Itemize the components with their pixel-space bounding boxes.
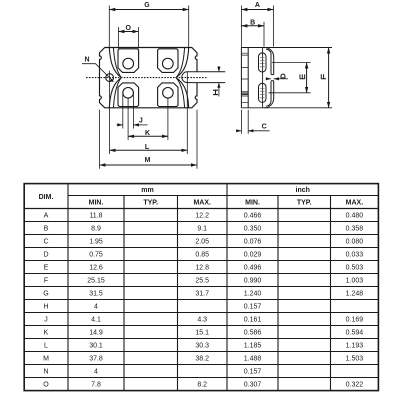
top view package body outline: [100, 48, 198, 108]
svg-text:0.85: 0.85: [195, 252, 209, 259]
label E (rotated): [300, 74, 305, 78]
svg-text:1.240: 1.240: [244, 291, 262, 298]
svg-text:M: M: [145, 157, 151, 164]
svg-text:0.350: 0.350: [244, 226, 262, 233]
svg-text:7.8: 7.8: [91, 382, 101, 389]
svg-text:inch: inch: [296, 187, 310, 194]
terminal hole lower-right: [163, 88, 174, 99]
svg-text:1.248: 1.248: [346, 291, 364, 298]
dimension B: [241, 25, 264, 27]
svg-text:37.8: 37.8: [89, 356, 103, 363]
svg-text:1.185: 1.185: [244, 343, 262, 350]
svg-text:0.033: 0.033: [346, 252, 364, 259]
label F (rotated): [321, 74, 326, 78]
terminal pad upper-right: [158, 49, 178, 73]
lower terminal bent tab outer: [264, 81, 273, 108]
right mounting slot: [182, 72, 225, 83]
table outer border: [24, 184, 378, 391]
svg-text:TYP.: TYP.: [297, 200, 312, 207]
svg-text:1.488: 1.488: [244, 356, 262, 363]
svg-text:0.594: 0.594: [346, 330, 364, 337]
svg-text:0.157: 0.157: [244, 304, 262, 311]
upper terminal hole capsule: [259, 53, 267, 72]
side view bottom edge / F extension: [241, 107, 332, 109]
svg-text:1.003: 1.003: [346, 278, 364, 285]
svg-text:O: O: [125, 25, 131, 32]
table header row lines: [68, 195, 378, 197]
svg-text:4.1: 4.1: [91, 317, 101, 324]
svg-text:MAX.: MAX.: [346, 200, 364, 207]
terminal hole lower-left: [123, 88, 134, 99]
svg-text:G: G: [43, 291, 48, 298]
J extension lines (hole tangents): [122, 93, 124, 129]
side view body right edge: [262, 48, 264, 108]
K extension lines (hole centers): [127, 98, 129, 140]
svg-text:38.2: 38.2: [195, 356, 209, 363]
svg-text:J: J: [44, 317, 48, 324]
svg-text:D: D: [43, 252, 48, 259]
svg-text:2.05: 2.05: [195, 239, 209, 246]
mounting hole N vertical centerline / L extension: [109, 71, 111, 154]
svg-text:0.029: 0.029: [244, 252, 262, 259]
dimension H: [218, 66, 220, 72]
dimension O: [118, 31, 138, 33]
slot center extension for L: [186, 72, 188, 154]
svg-text:0.322: 0.322: [346, 382, 364, 389]
dimension J: [117, 124, 123, 126]
svg-text:N: N: [43, 369, 48, 376]
svg-text:0.358: 0.358: [346, 226, 364, 233]
svg-text:0.161: 0.161: [244, 317, 262, 324]
svg-text:0.503: 0.503: [346, 265, 364, 272]
left molded recess inner curve: [113, 48, 121, 108]
terminal hole upper-right: [162, 58, 173, 69]
svg-text:12.6: 12.6: [89, 265, 103, 272]
leader line N: [82, 64, 112, 80]
svg-text:8.2: 8.2: [197, 382, 207, 389]
horizontal dashed centerline: [86, 77, 208, 79]
table column lines: [67, 184, 69, 391]
svg-text:0.586: 0.586: [244, 330, 262, 337]
label H (rotated): [213, 90, 218, 94]
svg-text:G: G: [144, 2, 150, 9]
dimension D: [266, 78, 271, 80]
upper terminal bent tab outer: [264, 48, 273, 75]
svg-text:C: C: [43, 239, 48, 246]
baseplate hatch: [241, 92, 248, 96]
svg-text:11.8: 11.8: [89, 213, 102, 220]
dimension L: [110, 149, 188, 151]
svg-text:L: L: [145, 144, 150, 151]
lower terminal hole capsule: [259, 83, 267, 102]
svg-text:0.080: 0.080: [346, 239, 364, 246]
svg-text:MIN.: MIN.: [245, 200, 260, 207]
lower tab end cap: [271, 80, 274, 82]
terminal hole upper-left: [123, 58, 134, 69]
svg-text:DIM.: DIM.: [39, 194, 54, 201]
capsule ticks upper: [260, 58, 265, 67]
side view baseplate: [240, 48, 242, 108]
svg-text:30.1: 30.1: [89, 343, 103, 350]
svg-text:4: 4: [94, 304, 98, 311]
svg-text:0.169: 0.169: [346, 317, 364, 324]
svg-text:0.076: 0.076: [244, 239, 262, 246]
svg-text:0.157: 0.157: [244, 369, 262, 376]
svg-text:TYP.: TYP.: [143, 200, 158, 207]
svg-text:J: J: [139, 117, 143, 124]
terminal pad lower-right: [158, 83, 178, 107]
svg-text:L: L: [44, 343, 48, 350]
svg-text:0.480: 0.480: [346, 213, 364, 220]
svg-text:1.503: 1.503: [346, 356, 364, 363]
svg-text:9.1: 9.1: [197, 226, 207, 233]
svg-text:C: C: [262, 124, 267, 131]
lower terminal bent tab inner: [266, 81, 271, 106]
svg-text:15.1: 15.1: [195, 330, 209, 337]
svg-text:31.7: 31.7: [195, 291, 209, 298]
svg-text:30.3: 30.3: [195, 343, 209, 350]
right molded recess outer curve: [176, 48, 189, 108]
svg-text:12.2: 12.2: [195, 213, 209, 220]
svg-text:4.3: 4.3: [197, 317, 207, 324]
terminal pad upper-left: [118, 49, 139, 73]
svg-text:25.5: 25.5: [195, 278, 209, 285]
dimensions table: [24, 184, 378, 391]
terminal pad lower-left: [118, 83, 139, 107]
table data text: [43, 213, 363, 389]
svg-text:B: B: [250, 19, 255, 26]
dimension E: [272, 62, 311, 64]
upper tab end cap: [271, 74, 274, 76]
svg-text:B: B: [44, 226, 49, 233]
svg-text:4: 4: [94, 369, 98, 376]
dimension A: [241, 9, 273, 11]
svg-text:0.990: 0.990: [244, 278, 262, 285]
svg-text:0.496: 0.496: [244, 265, 262, 272]
svg-text:F: F: [44, 278, 48, 285]
svg-text:1.95: 1.95: [89, 239, 103, 246]
svg-text:A: A: [44, 213, 49, 220]
mounting hole N: [106, 74, 114, 82]
svg-text:N: N: [84, 57, 89, 64]
svg-text:8.9: 8.9: [91, 226, 101, 233]
baseplate edge marks: [241, 53, 248, 102]
right molded recess inner curve: [176, 48, 184, 108]
dimension M: [100, 164, 198, 166]
svg-text:A: A: [255, 2, 260, 9]
svg-text:14.9: 14.9: [89, 330, 103, 337]
capsule ticks lower: [260, 89, 265, 98]
svg-text:0.307: 0.307: [244, 382, 262, 389]
label D (rotated): [281, 74, 286, 78]
svg-text:mm: mm: [141, 187, 153, 194]
svg-text:1.193: 1.193: [346, 343, 364, 350]
dimension C: [240, 110, 242, 134]
dimension labels: [84, 2, 326, 164]
dimension K: [128, 135, 168, 137]
svg-text:0.75: 0.75: [89, 252, 103, 259]
svg-text:25.15: 25.15: [87, 278, 105, 285]
svg-text:H: H: [43, 304, 48, 311]
svg-text:MAX.: MAX.: [193, 200, 211, 207]
upper terminal bent tab inner: [266, 49, 271, 74]
svg-text:MIN.: MIN.: [89, 200, 104, 207]
M extension lines: [99, 110, 101, 169]
svg-text:K: K: [44, 330, 49, 337]
left molded recess outer curve: [109, 48, 121, 108]
svg-text:M: M: [43, 356, 49, 363]
side view top edge / F extension: [241, 47, 332, 49]
dimension F: [328, 48, 330, 108]
table row lines: [24, 221, 378, 223]
svg-text:K: K: [145, 130, 150, 137]
svg-text:E: E: [44, 265, 49, 272]
svg-text:31.5: 31.5: [89, 291, 103, 298]
dimension G: [109, 9, 188, 11]
table header text: [39, 187, 364, 207]
svg-text:O: O: [43, 382, 49, 389]
svg-text:12.8: 12.8: [195, 265, 209, 272]
svg-text:0.466: 0.466: [244, 213, 262, 220]
